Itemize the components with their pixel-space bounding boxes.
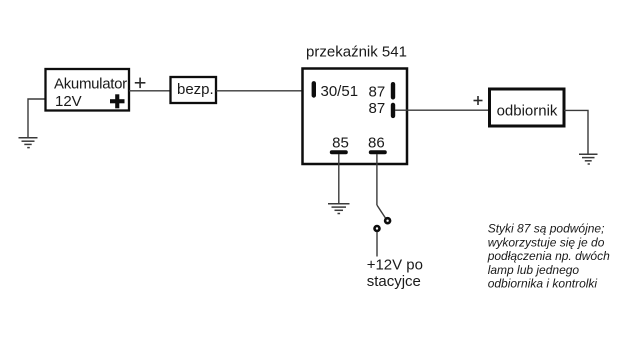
svg-text:Styki 87 są podwójne;: Styki 87 są podwójne; [488, 222, 605, 236]
wire switch to +12V label [376, 232, 378, 257]
wire battery to left ground [28, 99, 46, 138]
wire 85 to middle ground [338, 154, 340, 204]
svg-text:87: 87 [369, 100, 386, 117]
pin 30/51 terminal bar [312, 83, 316, 95]
switch S1 upper contact [385, 218, 390, 223]
wire battery to fuse [129, 90, 171, 92]
wire relay 87 to load [395, 109, 490, 111]
switch S1 lower contact [375, 226, 380, 231]
switch S1 (ignition) blade [377, 205, 386, 218]
pin 87 lower terminal bar [391, 105, 395, 116]
svg-text:lamp lub jednego: lamp lub jednego [488, 263, 580, 277]
svg-text:stacyjce: stacyjce [367, 273, 421, 290]
svg-text:86: 86 [368, 135, 385, 152]
svg-text:+12V po: +12V po [367, 256, 423, 273]
pin 85 terminal bar [332, 150, 346, 154]
svg-text:87: 87 [369, 84, 386, 101]
svg-text:85: 85 [332, 135, 349, 152]
svg-text:odbiornika i kontrolki: odbiornika i kontrolki [488, 277, 598, 291]
svg-text:30/51: 30/51 [321, 83, 359, 100]
note text about pins 87 [487, 222, 610, 291]
wire load to right ground [564, 110, 588, 154]
pin 86 terminal bar [371, 150, 385, 154]
ground (right, load return) [579, 154, 598, 164]
svg-text:Akumulator: Akumulator [54, 76, 127, 93]
ground (left, battery negative) [19, 138, 38, 148]
svg-text:bezp.: bezp. [177, 81, 214, 98]
pin 87 upper terminal bar [391, 84, 395, 97]
battery B1 Akumulator 12V [46, 69, 130, 111]
ground (middle, relay coil 85) [328, 204, 350, 214]
wire 86 down to switch [376, 154, 378, 205]
node + label at load input [474, 96, 483, 105]
load box odbiornik [490, 89, 565, 126]
node + label at battery output [135, 78, 146, 89]
relay K1 box [303, 69, 408, 165]
svg-text:odbiornik: odbiornik [497, 103, 558, 120]
fuse F1 bezp. [171, 77, 217, 103]
wire fuse to relay pin 30/51 [216, 90, 312, 92]
svg-text:wykorzystuje się je do: wykorzystuje się je do [488, 235, 605, 249]
svg-text:przekaźnik 541: przekaźnik 541 [306, 43, 407, 60]
battery plus terminal mark (bold +) [110, 94, 125, 108]
svg-text:podłączenia np. dwóch: podłączenia np. dwóch [487, 249, 610, 263]
svg-text:12V: 12V [55, 93, 82, 110]
